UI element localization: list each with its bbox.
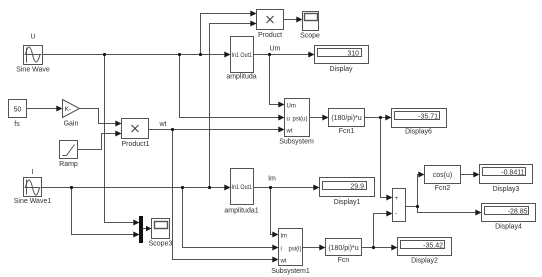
wire Fcn2 to Display3 <box>461 174 475 176</box>
svg-text:wt: wt <box>286 129 293 135</box>
junction node on I wire at x182 <box>181 186 184 189</box>
mux block <box>140 217 143 243</box>
svg-text:wt: wt <box>159 121 167 128</box>
sum block (plus minus) <box>393 189 406 222</box>
svg-text:Display4: Display4 <box>495 224 522 231</box>
function block Fcn <box>326 239 362 256</box>
svg-text:K-: K- <box>65 106 72 113</box>
arrowhead into Display <box>308 52 314 58</box>
arrowhead into Scope <box>296 17 302 23</box>
svg-text:Sine Wave1: Sine Wave1 <box>14 198 52 205</box>
constant fs (value 50) <box>9 100 27 118</box>
svg-text:Im: Im <box>268 176 276 183</box>
wire Mux to Scope3 <box>143 228 147 230</box>
wire branch Im down to Subsystem1 Im <box>271 188 274 235</box>
arrowhead into Subsystem u <box>278 115 284 121</box>
svg-text:50: 50 <box>14 107 22 114</box>
svg-text:+: + <box>395 195 399 202</box>
arrowhead into Display3 <box>473 172 479 178</box>
wire branch Fcn up to sum minus <box>374 214 388 248</box>
svg-text:Um: Um <box>270 46 281 53</box>
wire Product to Scope <box>284 19 298 21</box>
svg-text:amplituda: amplituda <box>226 74 256 81</box>
wire branch I up to Product in2 <box>210 24 252 188</box>
svg-text:310: 310 <box>347 51 359 58</box>
function block Fcn1 <box>329 109 365 127</box>
svg-text:amplituda1: amplituda1 <box>224 208 258 215</box>
junction node on U wire at x200 <box>199 53 202 56</box>
svg-text:In1 Out1: In1 Out1 <box>232 185 253 191</box>
wire node down to Display4 <box>418 207 477 213</box>
junction node sum output <box>416 205 419 208</box>
svg-text:29.9: 29.9 <box>350 184 364 191</box>
arrowhead into Product1 in1 <box>115 121 121 127</box>
arrowhead into Display2 <box>391 245 397 251</box>
sine wave source U (block Sine Wave) <box>24 46 43 65</box>
arrowhead into Scope3 <box>146 226 152 232</box>
svg-text:(180/pi)*u: (180/pi)*u <box>328 245 358 252</box>
sine wave source I (block Sine Wave1) <box>24 178 42 197</box>
svg-text:-0.8411: -0.8411 <box>501 170 524 177</box>
arrowhead into Display1 <box>313 185 319 191</box>
svg-text:wt: wt <box>280 259 287 265</box>
svg-text:Scope3: Scope3 <box>149 241 173 248</box>
svg-text:Display: Display <box>330 66 353 73</box>
svg-text:-35.42: -35.42 <box>423 243 443 250</box>
svg-text:Product: Product <box>258 32 282 39</box>
subsystem Subsystem <box>285 99 310 137</box>
svg-text:I: I <box>32 169 34 176</box>
subsystem Subsystem1 <box>279 229 303 266</box>
scope block Scope3 <box>152 219 170 239</box>
wire Ramp to Product1 in2 <box>78 134 117 150</box>
svg-text:u: u <box>287 117 290 123</box>
display block Display6 (value -35.71) <box>392 109 447 128</box>
arrowhead into Fcn2 <box>418 172 424 178</box>
arrowhead into Product1 in2 <box>115 131 121 137</box>
display block Display4 (value -28.85) <box>482 204 536 222</box>
svg-text:Fcn1: Fcn1 <box>339 128 355 135</box>
arrowhead into Display6 <box>385 115 391 121</box>
arrowhead into Mux in1 <box>133 220 139 226</box>
wire Subsystem1 psi(i) to Fcn <box>303 247 321 249</box>
junction node Fcn output <box>372 246 375 249</box>
svg-text:-28.85: -28.85 <box>508 209 528 216</box>
arrowhead into amplituda1 In1 <box>224 185 230 191</box>
subsystem amplituda <box>231 37 254 73</box>
svg-text:Display3: Display3 <box>493 186 520 193</box>
svg-text:Ramp: Ramp <box>59 161 78 168</box>
display block Display3 (value -0.8411) <box>480 165 533 184</box>
display block Display2 (value -35.42) <box>398 238 452 256</box>
wire branch Um down to Subsystem Um <box>270 55 280 105</box>
arrowhead into Product in1 <box>250 11 256 17</box>
arrowhead into sum minus <box>386 211 392 217</box>
wire branch I down to mux input 2 <box>72 188 135 235</box>
wire Fcn1 to Display6 <box>365 117 387 119</box>
wire sum output node <box>406 206 418 208</box>
wire wt: Product1 to Subsystem wt <box>149 129 280 131</box>
arrowhead into Gain <box>56 106 62 112</box>
junction node on U wire at x104 <box>103 53 106 56</box>
arrowhead into Subsystem1 Im <box>272 232 278 238</box>
svg-text:In1 Out1: In1 Out1 <box>232 53 253 59</box>
arrowhead into amplituda In1 <box>224 52 230 58</box>
wire branch U down to mux input 1 <box>105 55 135 223</box>
junction node on wt wire <box>171 128 174 131</box>
wire I: Sine Wave1 to amplituda1 In1 <box>42 187 226 189</box>
junction node Im <box>269 186 272 189</box>
arrowhead into Product in2 <box>250 21 256 27</box>
svg-text:Fcn2: Fcn2 <box>435 185 451 192</box>
wire Fcn to Display2 <box>362 247 393 249</box>
svg-text:Display2: Display2 <box>411 258 438 265</box>
scope block Scope <box>303 12 319 31</box>
arrowhead into sum plus <box>386 195 392 201</box>
wire branch wt down to Subsystem1 wt <box>173 130 274 260</box>
gain block Gain <box>63 100 80 118</box>
display block Display (value 310) <box>315 46 369 64</box>
svg-text:cos(u): cos(u) <box>433 172 452 179</box>
svg-text:Im: Im <box>281 234 288 240</box>
wire branch I down to Subsystem1 i <box>183 188 274 248</box>
product block Product <box>257 10 284 30</box>
svg-text:-: - <box>395 211 397 218</box>
svg-text:Scope: Scope <box>300 33 320 40</box>
arrowhead into Fcn1 <box>322 115 328 121</box>
arrowhead into Subsystem wt <box>278 127 284 133</box>
svg-text:Display1: Display1 <box>334 199 361 206</box>
wire Subsystem psi(u) to Fcn1 <box>310 117 324 119</box>
wire amplituda Out1 to Display <box>254 54 310 56</box>
wire U: Sine Wave to amplituda In1 <box>43 54 226 56</box>
svg-text:i: i <box>281 247 282 253</box>
junction node Um <box>268 53 271 56</box>
svg-text:Product1: Product1 <box>121 141 149 148</box>
svg-text:Sine Wave: Sine Wave <box>16 67 50 74</box>
subsystem amplituda1 <box>231 169 254 205</box>
arrowhead into Mux in2 <box>133 232 139 238</box>
product block Product1 <box>122 119 149 139</box>
junction node on I wire at x209 <box>208 186 211 189</box>
arrowhead into Fcn <box>319 245 325 251</box>
svg-text:-35.71: -35.71 <box>418 114 438 121</box>
wire fs to Gain <box>27 108 58 110</box>
svg-text:psi(u): psi(u) <box>292 117 307 123</box>
display block Display1 (value 29.9) <box>320 178 375 197</box>
arrowhead into Subsystem1 i <box>272 245 278 251</box>
wire amplituda1 Out1 to Display1 <box>254 187 315 189</box>
svg-text:Display6: Display6 <box>405 129 432 136</box>
arrowhead into Subsystem1 wt <box>272 257 278 263</box>
arrowhead into Subsystem Um <box>278 102 284 108</box>
wire branch U up to Product in1 <box>201 14 252 55</box>
junction node on U wire at x179 <box>178 53 181 56</box>
wire node up to Fcn2 <box>418 175 420 207</box>
svg-text:Gain: Gain <box>64 121 79 128</box>
svg-text:Um: Um <box>287 104 296 110</box>
wire Gain to Product1 in1 <box>80 109 117 124</box>
svg-text:(180/pi)*u: (180/pi)*u <box>331 115 361 122</box>
arrowhead into Display4 <box>475 210 481 216</box>
ramp source Ramp <box>60 141 78 159</box>
junction node on I wire at x71 <box>70 186 73 189</box>
svg-text:Fcn: Fcn <box>338 257 350 264</box>
wire branch Fcn1 down to sum plus <box>381 118 388 198</box>
svg-text:Subsystem1: Subsystem1 <box>271 268 310 275</box>
svg-text:U: U <box>30 34 35 41</box>
wire branch U down to Subsystem u <box>180 55 280 118</box>
function block Fcn2 <box>425 166 461 184</box>
junction node Fcn1 output <box>379 116 382 119</box>
svg-text:psi(i): psi(i) <box>289 247 302 253</box>
svg-text:fs: fs <box>14 121 20 128</box>
svg-text:Subsystem: Subsystem <box>279 139 314 146</box>
